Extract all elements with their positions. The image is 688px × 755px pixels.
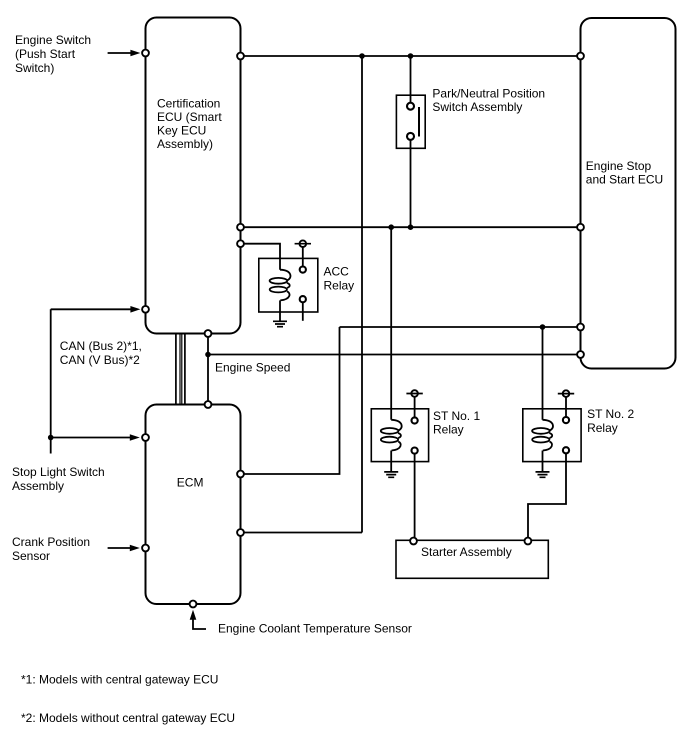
svg-text:Park/Neutral Position: Park/Neutral Position <box>432 86 545 100</box>
svg-text:ST No. 1: ST No. 1 <box>433 409 480 423</box>
svg-text:Assembly: Assembly <box>12 479 64 493</box>
svg-text:Switch Assembly: Switch Assembly <box>432 100 522 114</box>
svg-text:Switch): Switch) <box>15 61 54 75</box>
svg-text:Engine Stop: Engine Stop <box>586 159 652 173</box>
svg-text:Engine Coolant Temperature Sen: Engine Coolant Temperature Sensor <box>218 622 412 636</box>
svg-text:(Push Start: (Push Start <box>15 47 76 61</box>
svg-text:ECU (Smart: ECU (Smart <box>157 110 222 124</box>
svg-text:ACC: ACC <box>324 265 350 279</box>
svg-text:Key ECU: Key ECU <box>157 124 206 138</box>
svg-text:Assembly): Assembly) <box>157 137 213 151</box>
svg-text:*1: Models with central gatewa: *1: Models with central gateway ECU <box>21 673 218 687</box>
svg-text:CAN (V Bus)*2: CAN (V Bus)*2 <box>60 353 140 367</box>
svg-text:Relay: Relay <box>324 278 355 292</box>
svg-text:ST No. 2: ST No. 2 <box>587 407 634 421</box>
svg-text:Crank Position: Crank Position <box>12 535 90 549</box>
svg-text:Stop Light Switch: Stop Light Switch <box>12 465 105 479</box>
svg-text:Relay: Relay <box>433 423 464 437</box>
svg-text:Starter Assembly: Starter Assembly <box>421 545 512 559</box>
svg-text:CAN (Bus 2)*1,: CAN (Bus 2)*1, <box>60 339 142 353</box>
svg-text:ECM: ECM <box>177 476 204 490</box>
svg-text:Engine Switch: Engine Switch <box>15 33 91 47</box>
svg-text:Sensor: Sensor <box>12 549 50 563</box>
svg-text:*2: Models without central gat: *2: Models without central gateway ECU <box>21 711 235 725</box>
svg-text:and Start ECU: and Start ECU <box>586 173 663 187</box>
svg-text:Certification: Certification <box>157 96 220 110</box>
svg-text:Relay: Relay <box>587 421 618 435</box>
svg-text:Engine Speed: Engine Speed <box>215 361 290 375</box>
